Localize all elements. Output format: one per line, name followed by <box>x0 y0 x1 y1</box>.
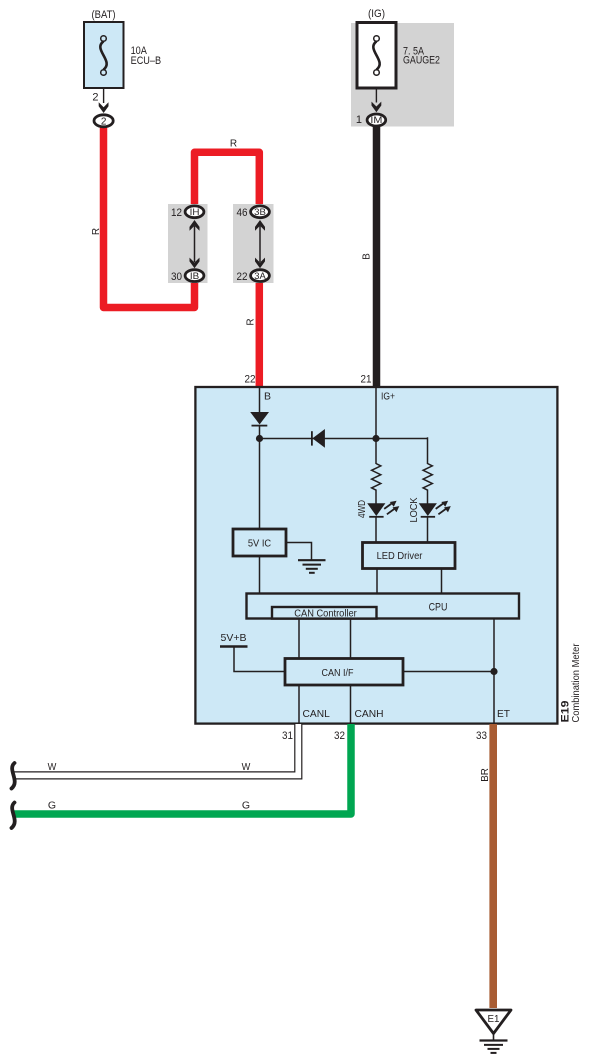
svg-text:B: B <box>264 391 271 403</box>
wire: 5V IC to CPU <box>259 556 261 594</box>
svg-text:CAN Controller: CAN Controller <box>294 608 357 620</box>
svg-text:B: B <box>362 253 373 260</box>
wire black: IM to meter pin 21 <box>373 126 381 386</box>
svg-text:32: 32 <box>334 730 345 742</box>
CAN Controller box U4 <box>272 607 377 620</box>
junction node at ET line <box>490 668 497 675</box>
svg-text:(IG): (IG) <box>368 8 385 20</box>
svg-text:GAUGE2: GAUGE2 <box>403 54 440 66</box>
wire: diode to 5V IC <box>259 426 261 529</box>
svg-text:3A: 3A <box>254 271 266 282</box>
terminal oval IH <box>185 206 204 218</box>
svg-text:BR: BR <box>479 768 491 782</box>
svg-text:22: 22 <box>237 271 248 283</box>
resistor R2 (LOCK) <box>423 464 432 491</box>
terminal oval IB <box>185 270 204 282</box>
svg-text:R: R <box>91 228 102 235</box>
svg-text:ET: ET <box>497 708 511 720</box>
svg-text:CAN I/F: CAN I/F <box>322 667 354 679</box>
svg-text:12: 12 <box>171 207 182 219</box>
relay block gray panel behind IG fuse <box>351 23 454 127</box>
svg-text:LED Driver: LED Driver <box>377 550 423 562</box>
wire red: IH up, right, down to 3B <box>195 152 260 208</box>
wire red: 3A down to meter pin 22 <box>256 272 264 387</box>
fuse F2 body 7.5A GAUGE2 <box>357 23 396 89</box>
wire: resistor to LED <box>375 490 377 505</box>
power symbol 5V+B <box>220 632 248 647</box>
diode D1 (series from B) <box>250 412 269 426</box>
ground (internal) <box>298 560 326 573</box>
svg-text:21: 21 <box>361 374 372 386</box>
CAN I/F box U5 <box>285 659 403 686</box>
wire: controller to CAN I/F left <box>298 619 300 659</box>
svg-text:W: W <box>48 761 57 773</box>
svg-text:33: 33 <box>476 730 487 742</box>
resistor R1 (4WD) <box>372 464 381 491</box>
wire: resistor to LED <box>427 490 429 505</box>
wire: 5V IC to ground <box>286 543 312 561</box>
wire green G: CANH out <box>14 724 351 814</box>
svg-text:W: W <box>242 761 251 773</box>
wire: LED driver to CPU right <box>441 569 443 595</box>
combination meter box E19 <box>195 387 557 724</box>
svg-text:31: 31 <box>282 730 293 742</box>
terminal oval IM <box>367 114 386 126</box>
wire red: BAT fuse down, right, up to IB <box>104 124 195 308</box>
junction node at B branch <box>256 435 263 442</box>
LED LOCK <box>419 501 451 517</box>
svg-text:IM: IM <box>370 115 382 126</box>
svg-text:E19: E19 <box>560 701 572 723</box>
connector block IH/IB gray body <box>168 204 208 283</box>
wire: pin22 to diode <box>259 388 261 413</box>
continuation squiggle (W wire) <box>12 763 15 789</box>
svg-text:IG+: IG+ <box>381 391 395 403</box>
svg-text:IH: IH <box>190 207 200 218</box>
svg-text:3B: 3B <box>254 207 266 218</box>
wire: CAN I/F to CANH pin <box>350 685 352 723</box>
svg-text:2: 2 <box>92 92 98 104</box>
svg-text:CANL: CANL <box>303 708 330 720</box>
pin 1 of fuse F2 <box>375 88 377 103</box>
terminal oval 3A <box>251 270 270 282</box>
fuse F1 body 10A ECU-B <box>84 22 124 88</box>
wire: horizontal bus y=438.5 <box>260 438 428 440</box>
svg-text:Combination Meter: Combination Meter <box>571 643 582 723</box>
wire: CAN I/F to ET line <box>403 671 494 673</box>
svg-text:IB: IB <box>190 271 199 282</box>
svg-text:22: 22 <box>245 374 256 386</box>
svg-text:46: 46 <box>237 207 248 219</box>
svg-text:G: G <box>48 800 56 812</box>
svg-text:LOCK: LOCK <box>408 498 420 523</box>
wire brown BR: ET to ground <box>489 724 497 1008</box>
svg-text:G: G <box>242 800 250 812</box>
svg-text:(BAT): (BAT) <box>92 9 116 21</box>
wire: bus corner down to lock resistor <box>427 437 429 464</box>
double arrow between IH and IB <box>190 220 200 268</box>
svg-text:CANH: CANH <box>355 708 384 720</box>
wire: controller to CAN I/F right <box>350 619 352 659</box>
wire: LED to LED driver <box>375 516 377 543</box>
junction node at IG+ branch <box>372 435 379 442</box>
svg-text:2: 2 <box>101 117 107 128</box>
terminal oval 3B <box>251 206 270 218</box>
svg-text:ECU–B: ECU–B <box>131 55 162 67</box>
LED 4WD <box>367 501 399 517</box>
svg-text:R: R <box>230 139 237 150</box>
continuation squiggle (G wire) <box>12 803 15 829</box>
svg-text:5V IC: 5V IC <box>248 538 272 550</box>
wire white W: CANL out <box>14 724 298 775</box>
svg-text:5V+B: 5V+B <box>221 632 247 644</box>
svg-text:1: 1 <box>356 114 362 126</box>
double arrow between 3B and 3A <box>255 220 265 268</box>
wire: 5V+B to CAN I/F <box>234 648 285 672</box>
svg-text:30: 30 <box>171 271 182 283</box>
svg-text:E1: E1 <box>488 1013 500 1025</box>
LED Driver box U2 <box>363 543 456 569</box>
wire: LED driver to CPU left <box>376 569 378 595</box>
5V IC box U1 <box>233 529 286 556</box>
svg-text:CPU: CPU <box>429 602 448 614</box>
connector block 3B/3A gray body <box>233 204 274 283</box>
ground point E1 <box>476 1010 511 1053</box>
svg-text:4WD: 4WD <box>356 500 368 518</box>
wire: LED to LED driver <box>427 516 429 543</box>
connector terminal oval 2 <box>94 115 113 128</box>
wire: CAN I/F to CANL pin <box>298 685 300 723</box>
CPU box U3 <box>247 594 520 619</box>
svg-text:R: R <box>246 318 257 325</box>
wire: pin21 down to bus <box>375 388 377 464</box>
diode D2 (horizontal, pointing left) <box>312 429 325 448</box>
wire: CPU to ET pin <box>493 619 495 724</box>
